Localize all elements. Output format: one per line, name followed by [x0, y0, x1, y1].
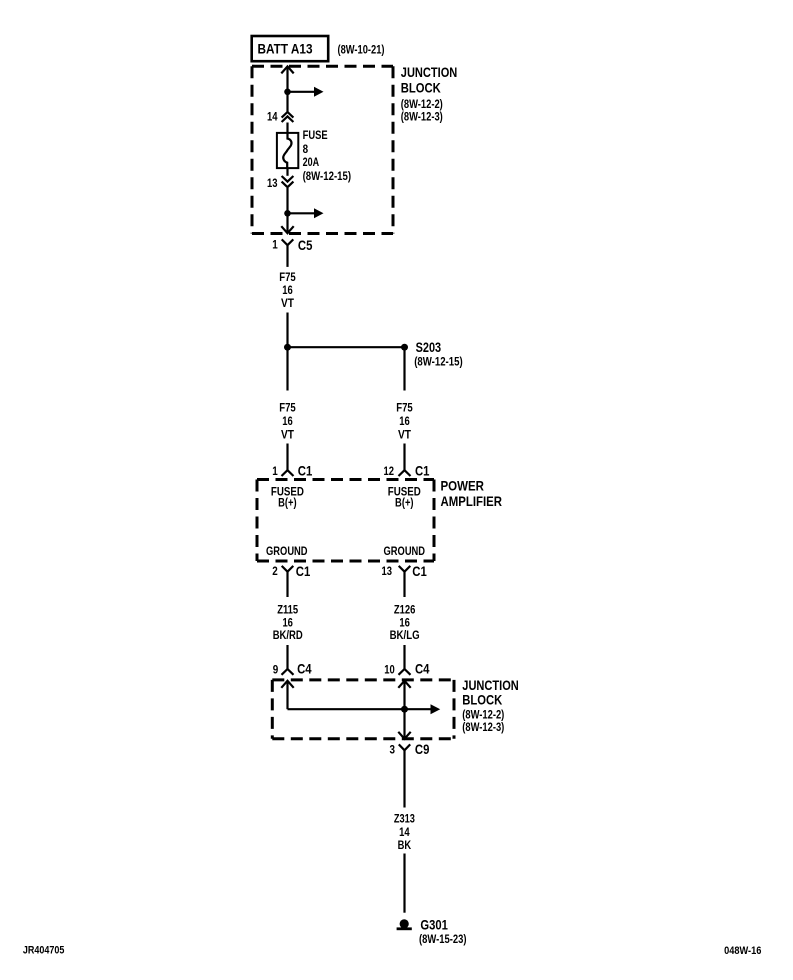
svg-text:3: 3 — [390, 743, 396, 757]
svg-text:BK: BK — [398, 838, 412, 852]
svg-text:F75: F75 — [279, 401, 296, 415]
svg-text:JR404705: JR404705 — [23, 945, 65, 957]
svg-text:Z115: Z115 — [277, 602, 298, 616]
svg-text:GROUND: GROUND — [384, 544, 426, 558]
svg-text:B(+): B(+) — [395, 496, 414, 510]
svg-text:048W-16: 048W-16 — [724, 945, 761, 957]
svg-text:10: 10 — [384, 662, 395, 676]
svg-text:BLOCK: BLOCK — [401, 80, 441, 96]
svg-text:GROUND: GROUND — [266, 544, 308, 558]
svg-text:(8W-12-15): (8W-12-15) — [414, 354, 463, 368]
svg-text:C4: C4 — [297, 661, 312, 677]
svg-text:Z313: Z313 — [394, 812, 415, 826]
svg-text:VT: VT — [281, 427, 295, 441]
svg-text:F75: F75 — [396, 401, 413, 415]
svg-text:POWER: POWER — [441, 477, 485, 493]
svg-text:BLOCK: BLOCK — [462, 691, 502, 707]
svg-text:12: 12 — [384, 464, 395, 478]
svg-text:AMPLIFIER: AMPLIFIER — [441, 493, 503, 509]
svg-text:C1: C1 — [415, 463, 430, 479]
svg-text:16: 16 — [282, 414, 293, 428]
svg-text:B(+): B(+) — [278, 496, 297, 510]
svg-text:(8W-12-15): (8W-12-15) — [303, 169, 352, 183]
svg-text:C9: C9 — [415, 741, 430, 757]
svg-text:20A: 20A — [303, 155, 320, 169]
svg-text:Z126: Z126 — [394, 602, 416, 616]
svg-text:G301: G301 — [420, 916, 448, 932]
svg-text:C1: C1 — [412, 563, 427, 579]
svg-text:JUNCTION: JUNCTION — [401, 64, 458, 80]
svg-text:C1: C1 — [298, 463, 313, 479]
svg-text:1: 1 — [272, 237, 278, 251]
svg-text:16: 16 — [282, 283, 293, 297]
svg-text:2: 2 — [272, 564, 278, 578]
svg-text:1: 1 — [272, 464, 278, 478]
svg-text:BK/LG: BK/LG — [390, 628, 420, 642]
svg-text:FUSE: FUSE — [303, 128, 328, 142]
svg-text:14: 14 — [399, 825, 410, 839]
svg-text:C1: C1 — [296, 563, 311, 579]
svg-text:13: 13 — [382, 564, 393, 578]
svg-text:(8W-15-23): (8W-15-23) — [419, 932, 467, 946]
svg-text:(8W-12-3): (8W-12-3) — [462, 720, 504, 734]
svg-text:13: 13 — [267, 176, 278, 190]
svg-text:C4: C4 — [415, 661, 430, 677]
svg-text:BATT A13: BATT A13 — [258, 41, 313, 57]
svg-text:C5: C5 — [298, 237, 313, 253]
svg-text:8: 8 — [303, 142, 309, 156]
svg-text:(8W-12-3): (8W-12-3) — [401, 110, 443, 124]
svg-text:14: 14 — [267, 110, 278, 124]
svg-text:BK/RD: BK/RD — [273, 628, 303, 642]
svg-text:VT: VT — [398, 427, 412, 441]
svg-text:F75: F75 — [279, 270, 296, 284]
svg-text:(8W-10-21): (8W-10-21) — [338, 42, 385, 56]
svg-text:VT: VT — [281, 296, 295, 310]
svg-text:S203: S203 — [416, 339, 442, 355]
svg-text:16: 16 — [399, 414, 410, 428]
svg-text:9: 9 — [273, 662, 279, 676]
